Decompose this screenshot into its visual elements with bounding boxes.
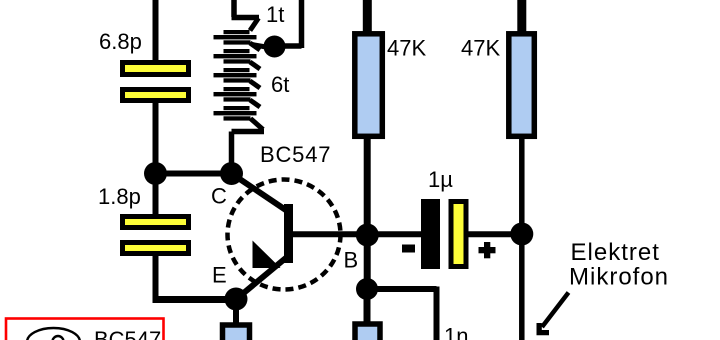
svg-text:6t: 6t [271,72,289,97]
svg-text:47K: 47K [387,36,426,61]
svg-text:E: E [212,263,227,288]
svg-text:Mikrofon: Mikrofon [569,264,669,291]
svg-text:47K: 47K [461,36,500,61]
svg-text:BC547: BC547 [94,327,161,340]
svg-text:6.8p: 6.8p [99,29,142,54]
svg-text:Elektret: Elektret [571,239,660,266]
svg-text:1t: 1t [266,2,284,27]
svg-text:B: B [344,248,359,273]
svg-text:1n: 1n [444,324,468,340]
svg-text:1µ: 1µ [428,167,453,192]
svg-text:1.8p: 1.8p [98,184,141,209]
svg-text:BC547: BC547 [260,142,331,167]
svg-text:C: C [211,184,227,209]
